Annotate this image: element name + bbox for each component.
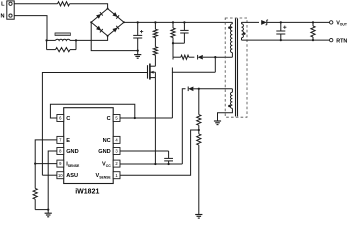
svg-text:C: C: [107, 116, 111, 122]
wire C pin row: [120, 117, 172, 119]
T1 primary phase dot: [228, 26, 231, 29]
wire out row: [281, 21, 330, 23]
resistor R10 (preload): [312, 22, 314, 26]
wire aux row to winding: [199, 88, 233, 90]
wire R4 to Q1 drain: [154, 55, 156, 66]
wire choke to bridge bottom: [76, 36, 108, 41]
bridge corner dots: [107, 8, 109, 10]
svg-text:NC: NC: [103, 138, 111, 144]
resistor R9 (Vsense lower): [198, 130, 200, 134]
wire Isense pin: [35, 163, 57, 165]
wire Vcc riser to aux diode: [182, 89, 185, 164]
wire RF1 to bridge top: [70, 4, 108, 9]
op-amp U1 iW1821 body: [64, 108, 113, 184]
primary ground symbol 1: [137, 51, 139, 55]
U1 right pin boxes 5-1: [113, 115, 120, 122]
wire to primary bottom: [215, 56, 232, 58]
U1 left pin boxes 6-10: [57, 115, 64, 122]
node choke left: [45, 39, 47, 41]
svg-text:E: E: [66, 138, 70, 144]
svg-text:ASU: ASU: [66, 173, 78, 179]
T1 aux winding: [231, 89, 233, 92]
inductor L1: [56, 39, 71, 40]
node Vsense tap: [198, 129, 200, 131]
node C pin loop: [134, 117, 136, 119]
wire Q1 gate row: [42, 73, 147, 176]
diode D5 (clamp): [198, 55, 203, 60]
wire Vcc row: [120, 163, 182, 165]
bulk capacitor C1: [137, 22, 139, 35]
T1 secondary phase dot: [243, 32, 246, 35]
node choke right: [75, 39, 77, 41]
resistor R3: [154, 22, 156, 29]
terminal RTN: [330, 38, 333, 41]
node out C4 bottom: [280, 39, 282, 41]
wire DC+ bus: [124, 21, 232, 23]
node Vcc source: [154, 163, 156, 165]
resistor R5 (clamp): [172, 22, 174, 28]
transformer T1 shield box: [225, 18, 247, 117]
svg-text:iW1821: iW1821: [75, 189, 99, 196]
node bus R3: [154, 21, 156, 23]
diode D7 (output schottky): [261, 20, 267, 25]
Q1 drain lead: [150, 65, 156, 67]
wire collector down to C pins: [171, 72, 173, 118]
T1 aux phase dot: [228, 105, 231, 108]
wire GND right pin to C3: [120, 150, 169, 152]
node R10 bottom: [312, 39, 314, 41]
resistor R7 (current sense): [34, 164, 36, 189]
wire Q1 source down to Vcc node: [154, 78, 156, 164]
node E/Isense: [34, 162, 36, 164]
primary ground symbol 2: [47, 210, 49, 214]
node bus C2: [183, 21, 185, 23]
wire clamp join: [173, 42, 184, 44]
resistor R2 (parallel damping): [56, 48, 71, 52]
connector J1 (AC input L/N): [7, 1, 14, 19]
T1 primary winding: [231, 22, 233, 23]
wire right branch up: [75, 40, 77, 49]
transistor Q1 gate bar: [147, 65, 149, 78]
wire left branch down: [46, 40, 48, 49]
node bus C1: [137, 21, 139, 23]
Q1 source lead: [150, 77, 156, 79]
wire R3-R4: [154, 38, 156, 47]
svg-text:GND: GND: [66, 149, 78, 155]
wire C loop over IC: [50, 104, 134, 118]
wire N down to filter: [14, 16, 47, 41]
wire choke right: [70, 39, 76, 41]
Q1 body lead with arrow: [150, 71, 156, 73]
node aux: [198, 88, 200, 90]
svg-text:GND: GND: [98, 149, 110, 155]
bridge diode D4 (bottom-right): [112, 28, 117, 33]
wire clamp down: [172, 43, 174, 57]
wire secondary to D7: [242, 21, 260, 23]
node R10 top: [312, 21, 314, 23]
bridge diode D3 (left-bottom): [96, 26, 101, 31]
svg-text:N: N: [1, 13, 5, 19]
node primary ground: [47, 208, 49, 210]
wire shunt to ground rail: [35, 209, 48, 211]
T1 secondary winding: [241, 22, 243, 23]
terminal Vout: [330, 21, 333, 24]
fusible resistor RF1: [58, 2, 70, 6]
wire GND pin down: [48, 151, 57, 210]
capacitor C4 (output): [280, 22, 282, 31]
bridge diode D1 (left-top): [96, 14, 101, 19]
bridge diode D2 (top-right): [112, 12, 117, 17]
svg-text:RTN: RTN: [336, 38, 347, 44]
svg-text:L: L: [1, 2, 5, 8]
wire L to fusible resistor: [14, 3, 57, 5]
node Vcc C3: [167, 163, 169, 165]
T1 core: [235, 18, 237, 116]
svg-text:10: 10: [58, 173, 63, 178]
node switch: [214, 56, 216, 58]
primary ground symbol 3: [195, 214, 202, 216]
resistor R6 (clamp series): [173, 56, 181, 58]
node bus R5: [172, 21, 174, 23]
diode D6 (Vcc rectifier): [188, 87, 193, 92]
transistor Q1 channel bar: [149, 64, 151, 80]
svg-text:C: C: [66, 116, 70, 122]
capacitor C2 (clamp): [183, 22, 185, 30]
primary ground symbol 4: [214, 120, 221, 122]
node C1 gnd: [137, 49, 139, 51]
wire to choke: [47, 39, 56, 41]
wire collector row: [172, 68, 215, 73]
resistor R4: [153, 47, 157, 55]
wire E pin: [35, 140, 57, 164]
node clamp: [172, 42, 174, 44]
resistor R8 (Vsense upper): [198, 89, 200, 115]
wire collector riser: [214, 57, 216, 72]
wire Vsense tap: [120, 130, 199, 175]
choke core bar: [55, 33, 70, 36]
bridge rectifier BR1 frame: [91, 9, 124, 36]
capacitor C3 (Vcc): [168, 151, 170, 158]
wire bridge minus to primary ground: [91, 22, 138, 50]
wire ASU pin: [42, 174, 57, 176]
node out C4 top: [280, 21, 282, 23]
wire RTN row: [242, 39, 330, 41]
